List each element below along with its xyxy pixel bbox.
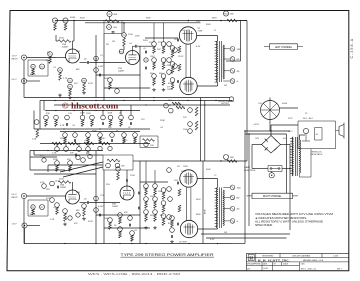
svg-text:16Ω: 16Ω — [237, 48, 241, 51]
svg-text:5W: 5W — [224, 85, 227, 87]
resistor R90 ref circle — [68, 216, 72, 220]
junction dot bridge top — [270, 130, 271, 131]
wire ground bus left ch — [24, 97, 230, 99]
svg-text:470K: 470K — [46, 198, 51, 200]
resistor R41 chain horizontal — [68, 142, 78, 145]
resistor R7 ref circle — [68, 84, 73, 89]
resistor R41 ref circle — [64, 147, 69, 152]
wire C3 to V1B grid — [89, 62, 125, 64]
capacitor C15 ref circle — [101, 115, 106, 120]
ground R7 — [69, 96, 71, 98]
wire bridge top stub — [270, 131, 272, 136]
wire output link a — [185, 44, 187, 77]
resistor R19 vertical — [171, 66, 174, 73]
junction dot pw1 — [244, 130, 245, 131]
resistor R17 ref circle — [108, 78, 113, 83]
svg-text:12AX7: 12AX7 — [112, 205, 119, 208]
junction dot pw2 — [248, 133, 249, 134]
wire T1 tap to riser — [226, 60, 241, 62]
wire mid bus 4 — [34, 128, 150, 130]
line filter capacitor box — [315, 128, 323, 141]
resistor R77 ref circle — [42, 184, 47, 189]
input jack J1 left ch — [21, 55, 26, 60]
resistor R60 horizontal in box — [107, 159, 120, 162]
resistor R3 ref circle — [48, 52, 53, 57]
terminal center ch ref circle — [229, 97, 233, 101]
resistor R38 ref circle — [122, 133, 127, 138]
junction dot lv — [204, 104, 205, 105]
resistor R17 ref circle — [161, 74, 166, 79]
resistor R39 ref circle — [133, 133, 138, 138]
wire to terminal G b — [223, 220, 230, 222]
svg-text:VOLTAGES MEASURED WITH 117V LI: VOLTAGES MEASURED WITH 117V LINE USING V… — [255, 213, 333, 216]
resistor R76 ref circle — [50, 198, 55, 203]
resistor R88 ref circle — [170, 216, 175, 221]
triode V6A 12AX7 — [66, 190, 80, 204]
junction dot m3 — [82, 110, 83, 111]
resistor R15 vertical — [162, 46, 165, 53]
screen ref circle h — [168, 197, 173, 202]
wire V6 plate up — [72, 182, 74, 190]
resistor R39 vertical — [134, 137, 137, 143]
svg-text:6.3V: 6.3V — [210, 239, 215, 241]
wire riser fb2 — [246, 131, 248, 161]
svg-text:68V: 68V — [76, 210, 80, 212]
junction dot chain — [63, 143, 64, 144]
title block outline — [246, 253, 348, 270]
svg-text:10K: 10K — [121, 166, 125, 168]
wire stage separator a — [95, 35, 97, 98]
title block row line 1 — [246, 257, 348, 259]
wire row2 bus — [60, 131, 140, 133]
wire chain drop a — [56, 144, 58, 147]
title block row line 2 — [246, 261, 348, 263]
svg-text:RIGHT CHANNEL: RIGHT CHANNEL — [263, 195, 282, 198]
wire riser b — [248, 134, 250, 226]
ground R4 — [59, 94, 61, 96]
screen ref circle c — [167, 58, 172, 63]
junction dot pw4 — [289, 168, 290, 169]
resistor R62 ref circle — [116, 167, 120, 171]
wire chain drop b — [65, 144, 67, 147]
resistor R70 ref circle — [161, 201, 166, 206]
junction dot mid bus — [215, 100, 216, 101]
resistor R4 ref circle — [58, 68, 63, 73]
wire diagonal route a — [60, 162, 103, 172]
resistor R5 horizontal — [105, 20, 119, 23]
svg-text:300V: 300V — [206, 24, 211, 26]
wire V1 plate to R6 — [72, 41, 74, 49]
svg-text:10K: 10K — [70, 152, 74, 154]
wire stage separator e — [103, 170, 105, 244]
screen ref circle d — [173, 64, 178, 69]
resistor R34 ref circle — [119, 115, 124, 120]
capacitor C4 ref circle — [107, 25, 112, 30]
resistor R35 ref circle — [63, 133, 68, 138]
cell divider small b — [272, 262, 274, 271]
wire R6 left end — [56, 40, 58, 42]
speaker terminal 16 right ch — [230, 185, 235, 190]
resistor R32 ref circle — [90, 115, 95, 120]
ground R56 — [83, 217, 85, 219]
junction dot m2 — [55, 110, 56, 111]
resistor R26 horizontal — [172, 102, 181, 105]
wire bottom drop c — [47, 165, 49, 172]
resistor R67 vertical — [154, 201, 157, 208]
resistor R6 plate load horizontal — [58, 40, 71, 43]
resistor R64 vertical — [145, 201, 148, 208]
svg-text:300V: 300V — [206, 169, 211, 171]
svg-text:V6A: V6A — [60, 184, 65, 187]
resistor R11 ref circle — [122, 33, 127, 38]
resistor R31 ref circle — [80, 115, 85, 120]
resistor R86 vertical — [119, 231, 122, 238]
wire V3 plate to T1 — [197, 85, 217, 87]
svg-text:22K: 22K — [158, 191, 162, 193]
svg-text:330K: 330K — [100, 138, 105, 140]
resistor R22 ref circle — [223, 11, 228, 16]
screen ref circle a — [167, 42, 172, 47]
wire V2 plate to T1 — [197, 35, 218, 37]
junction dot mid bus — [187, 100, 188, 101]
wire input gnd drop — [23, 60, 25, 97]
wire tap riser — [240, 21, 242, 62]
resistor R44 ref circle — [144, 142, 148, 146]
resistor R30 vertical — [36, 130, 39, 138]
capacitor C17 plates — [73, 139, 75, 142]
wire R6 left drop — [55, 35, 57, 41]
svg-text:47K: 47K — [67, 159, 71, 161]
svg-text:1.8 V: 1.8 V — [12, 224, 18, 226]
resistor R12 vertical — [153, 46, 156, 53]
svg-text:2.2K: 2.2K — [52, 152, 57, 154]
wire mid drop r2 — [102, 111, 104, 116]
resistor R21 vertical — [178, 64, 181, 71]
resistor R87 vertical — [131, 235, 134, 241]
resistor R56 vertical — [83, 208, 86, 216]
wire chain drop d — [87, 144, 89, 147]
wire fb to riser — [237, 20, 247, 22]
wire heater run 2 — [206, 237, 287, 239]
resistor R36 vertical — [87, 137, 90, 143]
resistor R62 plate vertical — [117, 172, 120, 180]
resistor R12 ref circle — [152, 42, 157, 47]
svg-text:G: G — [237, 221, 239, 223]
wire box drop — [310, 149, 312, 177]
resistor R29 vertical — [195, 121, 198, 130]
wire mid left drop a — [39, 101, 41, 130]
screen ref circle e — [167, 70, 172, 75]
wire mid drop r3 — [120, 111, 122, 116]
junction dot bus d — [220, 20, 222, 22]
wire fuse left — [252, 168, 268, 170]
wire mid drop r1 — [82, 111, 84, 116]
svg-text:82K: 82K — [168, 223, 172, 225]
svg-text:40/40: 40/40 — [282, 103, 288, 105]
capacitor C4 plates — [112, 31, 115, 33]
svg-text:117V: 117V — [288, 131, 293, 133]
capacitor C80 ref circle — [65, 115, 70, 120]
junction dot bus c — [188, 20, 190, 22]
junction dot bus105 d — [169, 104, 170, 105]
svg-text:BRN: BRN — [196, 214, 201, 216]
resistor R1 vertical — [32, 69, 35, 75]
resistor R30 ref circle — [34, 120, 39, 125]
resistor R85 vertical — [119, 217, 122, 224]
ground ladder b — [163, 88, 165, 90]
logo cell divider — [255, 253, 257, 262]
resistor R55 ref circle — [63, 209, 68, 214]
resistor R35 vertical — [64, 137, 67, 143]
svg-text:1.5V: 1.5V — [76, 192, 81, 194]
svg-text:118V: 118V — [150, 196, 155, 198]
screen ref circle b — [173, 48, 178, 53]
resistor R75 vertical — [178, 205, 181, 212]
svg-text:0.65V: 0.65V — [98, 66, 104, 68]
junction dot bus a — [73, 20, 75, 22]
capacitor C18 ref circle — [110, 133, 115, 138]
resistor R33 vertical — [109, 120, 112, 127]
capacitor C63 splitter — [137, 207, 139, 210]
transformer T2 core — [219, 188, 221, 229]
svg-text:340V: 340V — [196, 199, 201, 201]
svg-text:V1A: V1A — [62, 43, 67, 46]
thermal cutout ref circle — [303, 128, 308, 133]
resistor R85 ref circle — [118, 213, 123, 218]
resistor R55 vertical — [64, 213, 67, 221]
svg-text:350V: 350V — [80, 18, 85, 20]
capacitor C2 ref circle — [68, 78, 73, 83]
wire J4 stub — [27, 225, 40, 227]
speaker terminal 16 left ch — [230, 47, 235, 52]
wire mid drop r4 — [130, 105, 132, 115]
resistor R71 ref circle — [161, 214, 166, 219]
svg-text:1MEG: 1MEG — [30, 74, 36, 76]
wire V1 plate to C3 — [80, 62, 87, 64]
wire stage separator d — [95, 151, 97, 244]
resistor R81 ref circle — [44, 115, 49, 120]
power transformer T3 secondary winding — [292, 137, 293, 176]
wire output link b — [189, 44, 191, 77]
ground bc — [171, 240, 173, 242]
junction dot gnd bus 2 — [217, 243, 218, 244]
capacitor C9 grid — [176, 80, 178, 83]
junction dot bc1 — [119, 243, 120, 244]
svg-text:FUSETRON: FUSETRON — [244, 170, 256, 172]
svg-text:47K: 47K — [124, 212, 128, 214]
wire T1 pri bottom — [217, 82, 219, 86]
wire riser c — [286, 134, 288, 193]
pentode V2 7189 upper — [179, 27, 196, 44]
AC plug — [336, 123, 345, 139]
wire inter-stage y228 — [104, 227, 150, 229]
capacitor C64 grid — [176, 182, 178, 185]
capacitor C60 ref circle — [115, 163, 120, 168]
junction dot chain2 — [79, 143, 80, 144]
speaker terminal 4 right ch — [230, 206, 235, 211]
resistor R37 vertical — [99, 137, 102, 143]
capacitor C65 grid — [176, 223, 178, 226]
transformer T2 tick marks — [215, 188, 218, 190]
capacitor C3 ref circle — [94, 56, 99, 61]
transformer T1 tick marks — [215, 41, 218, 43]
resistor R31 vertical — [81, 120, 84, 127]
wire inter-stage y215 — [96, 214, 140, 216]
wire V1 grid — [56, 57, 66, 59]
svg-text:10K: 10K — [150, 145, 154, 147]
wire mid nested drop — [43, 101, 45, 111]
svg-text:47K: 47K — [74, 223, 78, 225]
junction dot fb2 — [220, 160, 222, 162]
resistor R14 vertical — [153, 78, 156, 85]
resistor R33 ref circle — [108, 115, 113, 120]
svg-text:C-358-A: C-358-A — [350, 38, 354, 59]
svg-text:330V: 330V — [146, 18, 151, 20]
wire B+ riser right — [246, 21, 248, 132]
svg-text:TYPE 299 STEREO POWER AMPLIFIE: TYPE 299 STEREO POWER AMPLIFIER — [121, 253, 215, 257]
input jack J3 right ch — [21, 193, 26, 198]
resistor R7 vertical — [69, 89, 72, 96]
svg-text:SLO - BLO: SLO - BLO — [303, 118, 313, 120]
wire T3 bottom run — [299, 176, 311, 178]
svg-text:100K: 100K — [108, 113, 113, 115]
resistor R17 vertical — [109, 82, 112, 89]
cell divider small c — [281, 262, 283, 266]
ground ladder d — [154, 226, 156, 228]
wire bridge left — [252, 144, 262, 146]
input jack J4 right ch — [22, 223, 27, 228]
junction dot mid bus — [95, 100, 96, 101]
resistor R14 ref circle — [152, 74, 157, 79]
wire to terminal 8 b — [223, 196, 230, 198]
svg-text:0.9V: 0.9V — [40, 182, 45, 184]
resistor R34 vertical — [120, 120, 123, 127]
resistor R54 plate horizontal — [58, 181, 71, 184]
capacitor C80 plates — [65, 123, 67, 126]
resistor R2 ref circle — [40, 64, 45, 69]
svg-text:12V: 12V — [183, 117, 187, 119]
svg-text:47K: 47K — [167, 65, 171, 67]
svg-text:470K: 470K — [46, 60, 51, 62]
wire output link d — [190, 187, 192, 220]
svg-text:H: H — [249, 256, 253, 261]
power transformer T3 tick marks — [290, 138, 293, 140]
ground ladder a — [153, 88, 155, 90]
svg-text:3 AMP: 3 AMP — [244, 166, 251, 169]
svg-text:1M: 1M — [112, 41, 115, 43]
resistor R82 ref circle — [54, 115, 59, 120]
resistor R68 ref circle — [153, 210, 158, 215]
svg-text:47K: 47K — [74, 83, 78, 85]
resistor R8 ref circle — [82, 78, 87, 83]
capacitor C10 ref circle — [94, 68, 99, 73]
ground R55 — [64, 223, 66, 225]
wire ladder drop c — [145, 161, 147, 184]
wire to terminal 4 — [223, 70, 230, 72]
input network box 2 — [28, 200, 48, 216]
company logo HH — [248, 255, 254, 261]
svg-text:270K: 270K — [128, 34, 133, 36]
svg-text:100K: 100K — [104, 78, 109, 80]
transformer T1 primary winding — [216, 41, 217, 82]
svg-text:270K: 270K — [130, 175, 135, 177]
right channel label box — [252, 193, 293, 198]
wire long vertical c — [202, 161, 204, 244]
wire V4 plate to T2 — [197, 178, 217, 180]
wire bottom link y174 — [34, 173, 96, 175]
svg-text:12AX7: 12AX7 — [118, 70, 125, 73]
power transformer T3 core — [294, 137, 296, 176]
svg-text:OUTPUT: OUTPUT — [221, 103, 230, 105]
wire ladder drop a — [153, 23, 155, 42]
AC interlock box — [298, 121, 336, 149]
wire bridge right — [281, 144, 291, 146]
svg-text:220K: 220K — [86, 113, 91, 115]
junction dot mid bus — [73, 100, 74, 101]
resistor R28 ref circle — [188, 108, 193, 113]
resistor R18 ref circle — [170, 46, 175, 51]
capacitor C86 ref circle — [170, 228, 175, 233]
network box mid-right — [140, 136, 158, 148]
resistor R94 ref circle — [98, 146, 102, 150]
speaker terminal G right ch — [230, 219, 235, 224]
resistor R79 vertical — [69, 165, 72, 171]
resistor R69 ref circle — [161, 188, 166, 193]
wire mid left drop b — [33, 111, 35, 130]
pentode V3 7189 lower — [180, 77, 197, 94]
resistor R4 cathode vertical — [59, 72, 62, 80]
resistor R80 ref circle — [81, 158, 86, 163]
wire bottom gnd link — [232, 243, 245, 245]
speaker terminal 4 left ch — [230, 69, 235, 74]
filter can C20 multi-section — [261, 101, 280, 120]
resistor R16 vertical — [162, 62, 165, 69]
network box top-left — [104, 21, 122, 34]
resistor R95 ref circle — [108, 146, 112, 150]
resistor R68 vertical — [154, 214, 157, 221]
wire ladder mid bus — [145, 37, 178, 39]
resistor R16 vertical — [64, 23, 67, 30]
svg-text:MAYNARD, MASS., U.S.A.: MAYNARD, MASS., U.S.A. — [303, 259, 324, 262]
resistor R53 ref circle — [55, 203, 60, 208]
svg-text:40/40: 40/40 — [70, 17, 76, 19]
svg-text:470K: 470K — [59, 38, 64, 40]
resistor R20 ref circle — [170, 78, 175, 83]
capacitor C85 ref circle — [128, 216, 133, 221]
screen ref circle f — [167, 168, 172, 173]
svg-text:INPUT: INPUT — [12, 58, 19, 60]
wire to terminal 16 b — [223, 186, 230, 188]
resistor R32 vertical — [91, 120, 94, 127]
capacitor C16 ref circle — [129, 115, 134, 120]
capacitor C53 ref circle — [94, 196, 99, 201]
wire B+ bus left channel — [55, 20, 247, 22]
resistor R87 ref circle — [130, 231, 135, 236]
wire T2 pri bottom — [217, 228, 219, 229]
svg-text:65V: 65V — [283, 138, 287, 140]
ground ladder c — [145, 226, 147, 228]
svg-text:4Ω: 4Ω — [237, 70, 240, 73]
svg-text:365V: 365V — [212, 18, 217, 20]
wire T3 primary bottom — [298, 173, 300, 177]
resistor R91 ref circle — [76, 213, 80, 217]
transformer T2 secondary winding — [223, 190, 224, 226]
transformer T2 primary winding — [216, 188, 217, 229]
svg-text:LEFT CHANNEL: LEFT CHANNEL — [275, 46, 293, 49]
svg-text:1.5V: 1.5V — [76, 51, 81, 53]
capacitor C51 coupling — [56, 186, 58, 189]
wire bias bus 2 — [245, 133, 287, 135]
